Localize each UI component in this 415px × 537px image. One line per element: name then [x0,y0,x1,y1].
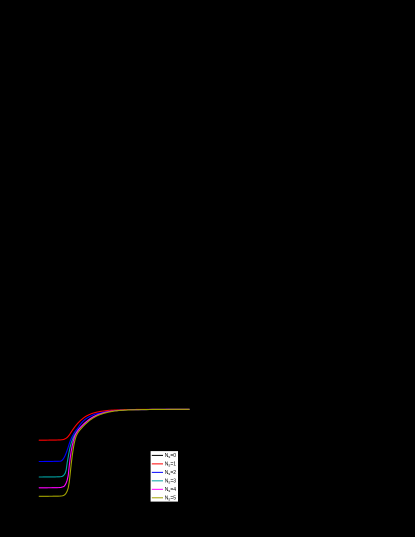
svg-text:Ns=4: Ns=4 [165,487,176,493]
legend entry N_s=3 [152,480,163,482]
svg-text:Ns=5: Ns=5 [165,495,176,501]
curve N_s=1 (red) [39,409,189,440]
legend entry N_s=2 [152,471,163,473]
svg-text:Ns=1: Ns=1 [165,461,176,467]
svg-text:Ns=0: Ns=0 [165,453,176,459]
legend entry N_s=0 [152,454,163,456]
legend entry N_s=4 [152,488,163,490]
curve N_s=4 (magenta) [39,409,189,488]
curve N_s=2 (blue) [39,409,189,461]
curve N_s=5 (olive) [39,409,189,496]
curve N_s=3 (teal) [39,409,189,477]
legend entry N_s=1 [152,463,163,465]
legend entry N_s=5 [152,497,163,499]
legend box [150,451,178,502]
svg-text:Ns=3: Ns=3 [165,478,176,484]
svg-text:Ns=2: Ns=2 [165,470,176,476]
